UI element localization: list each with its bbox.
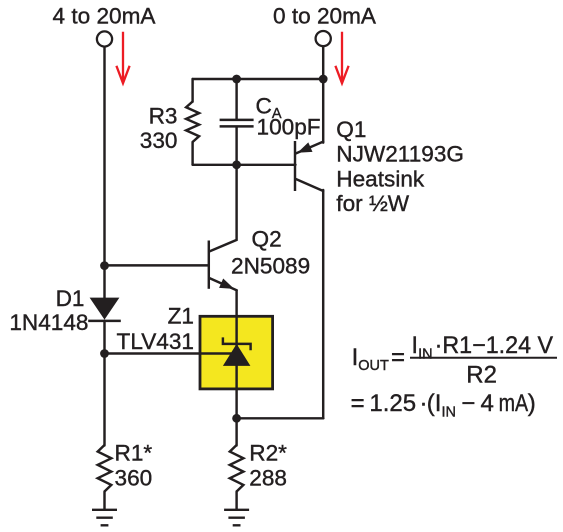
wire: R3 down to bottom rail xyxy=(191,142,193,165)
svg-text:2N5089: 2N5089 xyxy=(231,254,310,279)
svg-text:TLV431: TLV431 xyxy=(117,329,194,354)
current direction arrow (red), left input xyxy=(116,32,129,83)
terminal circle: 0 to 20mA output xyxy=(316,31,331,46)
svg-text:330: 330 xyxy=(140,128,178,153)
node: output junction above R2 xyxy=(232,414,241,423)
diode D1 (anode triangle) xyxy=(90,298,120,320)
svg-text:mA: mA xyxy=(499,390,528,417)
TLV431 cathode bar (bent zener bar) xyxy=(223,337,251,350)
wire: D1 cathode down to R1 xyxy=(103,321,105,446)
wire: R2 bottom to ground xyxy=(235,492,237,510)
svg-text:R1*: R1* xyxy=(115,440,153,465)
svg-text:NJW21193G: NJW21193G xyxy=(336,142,464,167)
node: Q2 base junction on left rail xyxy=(100,261,109,270)
transistor Q2 emitter lead xyxy=(210,278,237,290)
svg-text:D1: D1 xyxy=(56,286,85,311)
node: bottom rail / CA junction xyxy=(232,160,241,169)
capacitor CA bottom plate xyxy=(220,125,254,127)
svg-text:Q1: Q1 xyxy=(336,117,366,142)
wire: left input terminal down to D1 anode xyxy=(103,47,105,299)
resistor R2 (zigzag) xyxy=(230,445,244,492)
svg-text:360: 360 xyxy=(115,465,153,490)
wire: Q2 base lead xyxy=(105,264,208,266)
svg-text:1.25: 1.25 xyxy=(369,390,416,417)
capacitor CA top plate xyxy=(220,119,254,121)
resistor R3 (zigzag) xyxy=(186,102,199,143)
svg-text:=: = xyxy=(391,344,405,371)
wire: Q2 emitter down through Z1 to output node xyxy=(235,290,237,418)
TLV431 anode triangle xyxy=(223,344,251,366)
transistor Q2 base bar xyxy=(208,241,210,289)
svg-text:): ) xyxy=(528,390,536,417)
wire: bottom rail to Q1 base xyxy=(193,164,296,166)
transistor Q1 collector lead xyxy=(296,179,323,191)
svg-text:Z1: Z1 xyxy=(168,304,194,329)
svg-text:R2: R2 xyxy=(466,361,497,388)
node: TLV431 reference junction on left rail xyxy=(100,349,109,358)
svg-text:4: 4 xyxy=(481,390,494,417)
wire: output junction down to R2 xyxy=(235,418,237,445)
svg-text:Heatsink: Heatsink xyxy=(336,166,425,191)
diode D1 cathode bar xyxy=(88,320,121,322)
node: top rail / CA junction xyxy=(232,75,241,84)
svg-text:R2*: R2* xyxy=(249,440,287,465)
wire: bottom rail down to Q2 collector xyxy=(210,165,237,252)
ground symbol below R2 xyxy=(224,510,249,526)
resistor R1 (zigzag) xyxy=(98,445,112,492)
current direction arrow (red), right output xyxy=(335,32,348,83)
svg-text:100pF: 100pF xyxy=(257,115,321,140)
transistor Q1 base bar xyxy=(294,141,296,191)
svg-text:R3: R3 xyxy=(149,103,178,128)
svg-text:288: 288 xyxy=(249,465,287,490)
svg-text:4 to 20mA: 4 to 20mA xyxy=(53,4,157,29)
wire: TLV431 reference input xyxy=(105,352,233,354)
wire: output junction to Q1 collector xyxy=(237,417,324,419)
transistor Q1 emitter lead xyxy=(296,142,323,154)
node: top rail / right input junction xyxy=(319,75,328,84)
ground symbol below R1 xyxy=(92,510,117,526)
wire: Q1 collector down right side xyxy=(322,190,324,418)
svg-text:1N4148: 1N4148 xyxy=(9,310,88,335)
Z1 yellow highlight box xyxy=(200,316,273,389)
transistor Q1 emitter arrow (PNP, pointing in) xyxy=(298,142,313,152)
svg-text:−: − xyxy=(461,390,475,417)
transistor Q2 emitter arrow (NPN, pointing out) xyxy=(219,279,234,289)
wire: CA bottom plate to bottom rail xyxy=(235,128,237,165)
wire: top rail down to R3 xyxy=(191,79,193,102)
wire: top rail down to CA top plate xyxy=(235,79,237,119)
wire: right terminal down to Q1 emitter xyxy=(322,46,324,142)
wire: top rail xyxy=(193,78,324,80)
terminal circle: 4 to 20mA input xyxy=(97,31,112,46)
svg-text:for ½W: for ½W xyxy=(336,191,409,216)
formula: fraction bar xyxy=(410,357,557,359)
svg-text:Q2: Q2 xyxy=(252,227,282,252)
svg-text:0 to 20mA: 0 to 20mA xyxy=(273,4,377,29)
wire: R1 bottom to ground xyxy=(103,492,105,510)
svg-text:=: = xyxy=(351,390,365,417)
